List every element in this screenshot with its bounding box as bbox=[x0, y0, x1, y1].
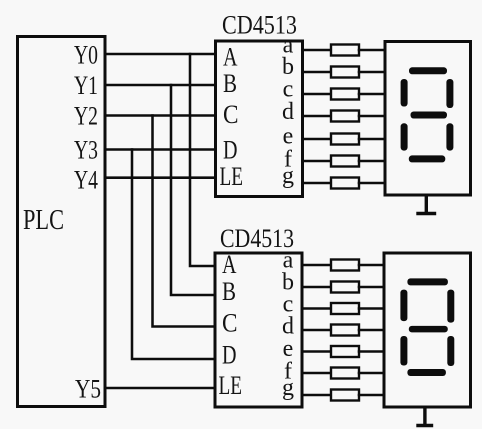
ground GND2 bbox=[418, 408, 432, 426]
DS1 segment d bbox=[409, 155, 446, 162]
wire U1 pin g to R7 bbox=[303, 182, 331, 185]
svg-text:C: C bbox=[223, 100, 239, 129]
wire U1 pin e to R5 bbox=[303, 138, 331, 141]
wire R3 to DS1 bbox=[359, 93, 384, 96]
wire R8 to DS2 bbox=[359, 264, 383, 267]
PLC box bbox=[18, 37, 106, 407]
svg-text:LE: LE bbox=[220, 162, 244, 191]
wire Y4 to U1 pin LE bbox=[106, 176, 214, 179]
DS2 segment b bbox=[447, 290, 454, 323]
7-segment display DS1 box bbox=[385, 42, 471, 196]
wire U1 pin c to R3 bbox=[303, 93, 331, 96]
wire R4 to DS1 bbox=[359, 115, 384, 118]
svg-text:Y3: Y3 bbox=[74, 136, 98, 165]
svg-text:Y5: Y5 bbox=[75, 375, 101, 404]
ground GND1 bbox=[418, 196, 435, 214]
wire Y1 to U1 pin B bbox=[106, 84, 214, 87]
wire R14 to DS2 bbox=[359, 394, 383, 397]
svg-text:Y4: Y4 bbox=[74, 166, 98, 195]
svg-text:D: D bbox=[222, 341, 237, 370]
wire R6 to DS1 bbox=[359, 160, 384, 163]
DS1 segment e bbox=[401, 123, 408, 150]
DS1 segment a bbox=[409, 67, 447, 74]
wire U2 pin c to R10 bbox=[302, 307, 331, 310]
wire U2 pin e to R12 bbox=[302, 350, 331, 353]
resistor R2 bbox=[331, 67, 359, 78]
wire R5 to DS1 bbox=[359, 138, 384, 141]
wire U1 pin d to R4 bbox=[303, 115, 331, 118]
wire R13 to DS2 bbox=[359, 372, 383, 375]
decoder U2 CD4513 box bbox=[215, 253, 302, 407]
7-segment display DS2 box bbox=[384, 253, 471, 407]
resistor R12 bbox=[331, 346, 359, 357]
DS1 segment g bbox=[411, 112, 448, 119]
svg-text:g: g bbox=[282, 375, 294, 401]
svg-text:D: D bbox=[223, 136, 238, 165]
wire Y2 to U1 pin C bbox=[106, 114, 214, 117]
decoder U1 CD4513 box bbox=[216, 41, 303, 197]
wire R1 to DS1 bbox=[359, 49, 384, 52]
resistor R5 bbox=[331, 134, 359, 145]
svg-text:A: A bbox=[222, 250, 237, 279]
DS2 segment e bbox=[400, 336, 407, 366]
resistor R13 bbox=[331, 368, 359, 379]
resistor R10 bbox=[331, 303, 359, 314]
svg-text:PLC: PLC bbox=[23, 205, 64, 236]
wire Y1 branch down to U2 pin B bbox=[171, 85, 214, 295]
wire R11 to DS2 bbox=[359, 329, 383, 332]
svg-text:B: B bbox=[222, 277, 236, 306]
wire Y0 branch down to U2 pin A bbox=[190, 54, 214, 266]
DS1 segment f bbox=[401, 79, 408, 107]
svg-text:C: C bbox=[222, 309, 238, 338]
resistor R11 bbox=[331, 325, 359, 336]
wire U2 pin a to R8 bbox=[302, 264, 331, 267]
resistor R1 bbox=[331, 45, 359, 56]
DS2 segment g bbox=[409, 326, 448, 333]
svg-text:Y0: Y0 bbox=[74, 41, 98, 70]
svg-text:g: g bbox=[282, 163, 294, 189]
resistor R6 bbox=[331, 156, 359, 167]
svg-text:Y2: Y2 bbox=[74, 102, 98, 131]
wire U1 pin f to R6 bbox=[303, 160, 331, 163]
svg-text:B: B bbox=[223, 69, 237, 98]
wire U2 pin g to R14 bbox=[302, 394, 331, 397]
wire U1 pin a to R1 bbox=[303, 49, 331, 52]
svg-text:d: d bbox=[282, 99, 294, 125]
wire Y0 to U1 pin A bbox=[106, 53, 214, 56]
wire R2 to DS1 bbox=[359, 71, 384, 74]
wire U1 pin b to R2 bbox=[303, 71, 331, 74]
svg-text:Y1: Y1 bbox=[74, 71, 98, 100]
wire U2 pin f to R13 bbox=[302, 372, 331, 375]
wire Y5 to U2 pin LE bbox=[106, 387, 214, 390]
wire Y2 branch down to U2 pin C bbox=[153, 116, 215, 327]
wire Y3 to U1 pin D bbox=[106, 148, 214, 151]
wire R9 to DS2 bbox=[359, 286, 383, 289]
DS2 segment f bbox=[400, 290, 407, 322]
resistor R8 bbox=[331, 260, 359, 271]
DS2 segment d bbox=[407, 369, 446, 376]
DS2 segment c bbox=[447, 336, 454, 366]
resistor R3 bbox=[331, 89, 359, 100]
resistor R7 bbox=[331, 178, 359, 189]
svg-text:A: A bbox=[223, 43, 238, 72]
DS2 segment a bbox=[407, 278, 448, 285]
wire R12 to DS2 bbox=[359, 350, 383, 353]
wire U2 pin d to R11 bbox=[302, 329, 331, 332]
DS1 segment b bbox=[446, 79, 453, 108]
svg-text:LE: LE bbox=[219, 371, 243, 400]
wire R7 to DS1 bbox=[359, 182, 384, 185]
wire R10 to DS2 bbox=[359, 307, 383, 310]
wire U2 pin b to R9 bbox=[302, 286, 331, 289]
resistor R9 bbox=[331, 282, 359, 293]
DS1 segment c bbox=[446, 123, 453, 150]
resistor R14 bbox=[331, 390, 359, 401]
resistor R4 bbox=[331, 111, 359, 122]
wire Y3 branch down to U2 pin D bbox=[132, 150, 214, 360]
